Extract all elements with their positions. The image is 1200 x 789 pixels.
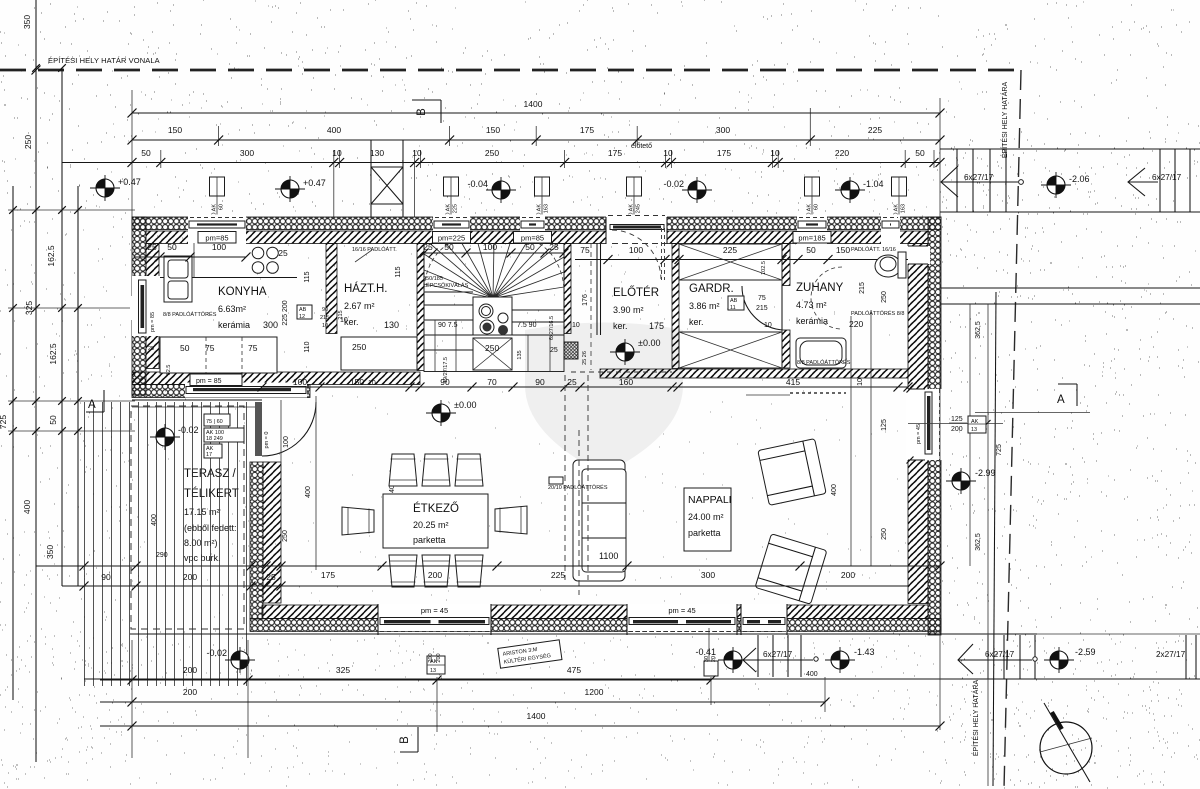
dimension chain kitchen top row xyxy=(134,256,246,258)
svg-text:350: 350 xyxy=(45,545,55,559)
stair direction arrow right band 1 xyxy=(941,166,1018,197)
svg-text:250: 250 xyxy=(485,148,499,158)
callout 125/200 AK13 xyxy=(908,423,1003,425)
svg-text:6x27/17: 6x27/17 xyxy=(985,650,1015,659)
svg-text:ker.: ker. xyxy=(689,317,704,327)
dimension chain 1400 top xyxy=(132,112,940,114)
svg-text:-1.43: -1.43 xyxy=(854,647,875,657)
elevation marker -2.99 xyxy=(946,468,976,494)
svg-text:pm=185: pm=185 xyxy=(798,234,825,243)
svg-text:25: 25 xyxy=(266,572,276,582)
svg-text:ÉPÍTÉSI HELY HATÁRA: ÉPÍTÉSI HELY HATÁRA xyxy=(971,680,980,757)
svg-text:PADLÓÁTTÖRÉS 8/8: PADLÓÁTTÖRÉS 8/8 xyxy=(851,310,904,317)
svg-text:300: 300 xyxy=(240,148,254,158)
left margin dimension lines xyxy=(35,0,37,762)
svg-text:175: 175 xyxy=(649,321,664,331)
svg-text:GARDR.: GARDR. xyxy=(689,283,734,295)
svg-text:20: 20 xyxy=(711,656,717,662)
svg-text:300: 300 xyxy=(263,320,278,330)
svg-text:-0.41: -0.41 xyxy=(695,647,716,657)
svg-text:A: A xyxy=(1057,394,1065,406)
dimension chain bottom row1 xyxy=(100,679,711,681)
svg-text:100: 100 xyxy=(212,242,226,252)
chair left xyxy=(342,507,374,535)
svg-text:90: 90 xyxy=(440,377,450,387)
svg-text:24.00 m²: 24.00 m² xyxy=(688,512,724,522)
svg-text:25: 25 xyxy=(567,377,577,387)
outer wall right insulation xyxy=(928,217,941,635)
svg-text:250: 250 xyxy=(23,135,33,149)
armchair 2 xyxy=(755,534,827,605)
svg-text:-2.06: -2.06 xyxy=(1069,174,1090,184)
section line vertical right xyxy=(987,304,989,786)
svg-text:10: 10 xyxy=(332,148,342,158)
svg-text:25: 25 xyxy=(423,242,433,252)
svg-text:130: 130 xyxy=(370,148,384,158)
toilet xyxy=(875,255,901,277)
room label NAPPALI xyxy=(684,488,731,551)
svg-text:2x27/17: 2x27/17 xyxy=(1156,650,1186,659)
dimension chain upper rooms row xyxy=(575,259,908,261)
svg-text:6.63m²: 6.63m² xyxy=(218,304,246,314)
svg-text:200: 200 xyxy=(428,570,442,580)
svg-text:400: 400 xyxy=(151,514,158,526)
outer wall left brick xyxy=(146,244,159,369)
gardrobe cabinet bottom xyxy=(679,332,782,368)
svg-text:175: 175 xyxy=(717,148,731,158)
dimension chain top row2 xyxy=(132,139,940,141)
eloter dims xyxy=(596,243,598,335)
elevation marker -1.43 xyxy=(825,647,855,673)
svg-text:75: 75 xyxy=(580,245,590,255)
interior wall hazth/stair xyxy=(417,244,424,371)
svg-text:1400: 1400 xyxy=(527,711,546,721)
interior wall gardr/zuhany xyxy=(782,244,790,286)
svg-text:ker.: ker. xyxy=(613,321,628,331)
interior wall konyha/hazth xyxy=(326,244,337,334)
svg-text:B: B xyxy=(416,108,428,116)
svg-text:300: 300 xyxy=(716,125,730,135)
svg-text:200: 200 xyxy=(428,653,434,662)
svg-text:102.5: 102.5 xyxy=(761,261,767,275)
nappali window 2 xyxy=(741,604,787,636)
svg-text:415: 415 xyxy=(786,377,800,387)
svg-text:pm = 45: pm = 45 xyxy=(421,606,448,615)
svg-text:325: 325 xyxy=(336,665,350,675)
svg-text:3.86 m²: 3.86 m² xyxy=(689,301,720,311)
box AB12 xyxy=(297,305,312,319)
dimension chain living row xyxy=(36,565,940,567)
right exterior stair band xyxy=(940,148,1200,150)
svg-text:10: 10 xyxy=(412,148,422,158)
right horizontal lines xyxy=(941,287,1200,289)
svg-text:-0.02: -0.02 xyxy=(178,425,199,435)
elevation marker -1.04 xyxy=(835,177,865,203)
svg-text:70: 70 xyxy=(487,377,497,387)
svg-text:215: 215 xyxy=(859,282,866,294)
svg-text:100: 100 xyxy=(293,377,307,387)
svg-text:-0.02: -0.02 xyxy=(206,648,227,658)
svg-text:pm = 85: pm = 85 xyxy=(196,378,222,385)
svg-text:LÉPCSŐKIVÁLÁS: LÉPCSŐKIVÁLÁS xyxy=(423,282,469,289)
dimension chain bottom row3 xyxy=(100,725,940,727)
svg-text:17: 17 xyxy=(206,452,212,458)
svg-text:50: 50 xyxy=(48,415,58,425)
svg-text:10: 10 xyxy=(572,322,580,329)
svg-text:100: 100 xyxy=(483,242,497,252)
window callout xyxy=(444,177,459,196)
dashed shower door xyxy=(746,394,790,396)
svg-text:162.5: 162.5 xyxy=(48,343,58,365)
right vertical dim xyxy=(969,304,971,566)
svg-text:400: 400 xyxy=(305,486,312,498)
svg-text:pm = 85: pm = 85 xyxy=(150,312,156,332)
section mark A left xyxy=(103,390,105,412)
interior wall eloter/gardr xyxy=(672,244,679,369)
outer wall top insulation xyxy=(132,217,941,230)
section mark A right xyxy=(1076,384,1078,406)
right wall small opening xyxy=(906,246,930,264)
svg-text:25: 25 xyxy=(148,346,154,352)
kitchen sink cabinet xyxy=(164,256,192,302)
svg-text:225 200: 225 200 xyxy=(282,300,289,325)
svg-text:12: 12 xyxy=(299,314,305,320)
svg-text:50: 50 xyxy=(141,148,151,158)
svg-text:PADLÓÁTT. 16/16: PADLÓÁTT. 16/16 xyxy=(851,246,896,253)
zuhany window xyxy=(797,215,827,245)
svg-text:10: 10 xyxy=(663,148,673,158)
stair washer box xyxy=(473,297,512,335)
stair arrow bottom 2 xyxy=(958,644,1032,674)
chair bottom 2 xyxy=(422,555,450,587)
svg-text:B: B xyxy=(399,736,411,744)
outer wall bottom insulation xyxy=(250,619,941,632)
svg-text:10: 10 xyxy=(857,378,864,386)
svg-text:pm = 45: pm = 45 xyxy=(916,424,922,444)
svg-text:163: 163 xyxy=(544,204,550,213)
svg-text:163: 163 xyxy=(901,204,907,213)
svg-text:290: 290 xyxy=(156,552,168,559)
wc window xyxy=(881,215,900,245)
dimension chain hall bottom xyxy=(262,386,908,388)
kitchen counter top xyxy=(159,277,297,279)
svg-text:175: 175 xyxy=(608,148,622,158)
svg-text:-2.59: -2.59 xyxy=(1075,647,1096,657)
kitchen-terrace wall brick xyxy=(132,372,420,385)
svg-text:350: 350 xyxy=(22,15,32,29)
svg-text:362,5: 362,5 xyxy=(975,321,982,339)
svg-text:150: 150 xyxy=(350,377,364,387)
chair bottom 3 xyxy=(455,555,483,587)
svg-text:25: 25 xyxy=(278,248,288,258)
svg-text:AB: AB xyxy=(730,298,738,304)
svg-text:115: 115 xyxy=(304,271,311,282)
entrance door swing xyxy=(661,228,663,280)
svg-text:75 | 60: 75 | 60 xyxy=(206,419,223,425)
parallel boundary line xyxy=(993,292,996,786)
kitchen lower counter xyxy=(160,337,277,373)
box AB11 xyxy=(728,296,744,310)
elevation marker +0.47 xyxy=(275,176,305,202)
ariston unit box xyxy=(498,640,562,668)
eloter dashed edge xyxy=(590,243,592,370)
svg-text:parketta: parketta xyxy=(413,535,446,545)
svg-text:+0.47: +0.47 xyxy=(118,177,141,187)
window callout xyxy=(535,177,550,196)
svg-text:175: 175 xyxy=(321,570,335,580)
elevation marker pm0 eloter xyxy=(610,339,640,365)
site boundary dashed line right xyxy=(1004,70,1021,789)
svg-text:325: 325 xyxy=(24,301,34,315)
dimension chain top row3 xyxy=(62,162,940,164)
elevation marker -0.02 xyxy=(682,177,712,203)
svg-text:75: 75 xyxy=(758,295,766,302)
terrace door xyxy=(255,402,262,456)
svg-text:10: 10 xyxy=(764,322,772,329)
svg-text:176: 176 xyxy=(582,294,589,306)
right wall window pm45 xyxy=(906,389,943,460)
svg-text:8/8 PADLÓÁTTÖRÉS: 8/8 PADLÓÁTTÖRÉS xyxy=(797,359,851,366)
svg-text:225: 225 xyxy=(723,245,737,255)
chair right xyxy=(495,506,527,534)
svg-text:215: 215 xyxy=(756,305,768,312)
svg-text:10: 10 xyxy=(322,323,328,329)
svg-text:400: 400 xyxy=(327,125,341,135)
gardr door swing xyxy=(781,285,783,330)
section mark B bottom xyxy=(417,727,419,752)
hall bottom wall brick xyxy=(600,369,908,378)
svg-text:75: 75 xyxy=(205,343,215,353)
svg-text:pm = 45: pm = 45 xyxy=(668,606,695,615)
svg-text:kerámia: kerámia xyxy=(796,316,828,326)
svg-text:10: 10 xyxy=(770,148,780,158)
svg-text:±0.00: ±0.00 xyxy=(638,338,660,348)
kitchen hob xyxy=(252,247,264,259)
svg-text:200: 200 xyxy=(183,572,197,582)
svg-text:NAPPALI: NAPPALI xyxy=(688,494,732,506)
svg-text:20.25 m²: 20.25 m² xyxy=(413,520,449,530)
chimney flue symbol xyxy=(371,140,403,217)
bathtub xyxy=(796,338,846,368)
svg-text:-0.04: -0.04 xyxy=(467,179,488,189)
svg-text:200: 200 xyxy=(951,426,963,433)
elevation marker -0.41 xyxy=(718,647,748,673)
bottom wall dashed sill xyxy=(250,631,941,633)
svg-text:25: 25 xyxy=(549,242,559,252)
svg-text:+0.47: +0.47 xyxy=(303,178,326,188)
elevation marker pm0 living xyxy=(426,400,456,426)
svg-text:150: 150 xyxy=(168,125,182,135)
elevation marker terrace xyxy=(150,424,180,450)
window callout xyxy=(210,177,225,196)
svg-text:115: 115 xyxy=(395,266,402,277)
svg-text:-2.99: -2.99 xyxy=(975,468,996,478)
svg-text:kerámia: kerámia xyxy=(218,320,250,330)
outer wall bottom brick xyxy=(262,605,928,619)
svg-text:100: 100 xyxy=(283,436,290,448)
left tick rows xyxy=(8,209,135,211)
svg-text:110: 110 xyxy=(304,341,311,352)
svg-text:2.67 m²: 2.67 m² xyxy=(344,301,375,311)
svg-text:250: 250 xyxy=(881,291,888,303)
dining table xyxy=(383,494,488,548)
terrace covered dashed outline xyxy=(131,406,244,629)
svg-text:135: 135 xyxy=(517,350,523,359)
svg-text:13: 13 xyxy=(430,668,436,674)
svg-text:225: 225 xyxy=(868,125,882,135)
kitchen-terrace wall insulation xyxy=(132,385,310,398)
watermark shield logo xyxy=(525,323,683,475)
svg-text:KONYHA: KONYHA xyxy=(218,286,267,298)
window callout xyxy=(627,177,642,196)
chair top 1 xyxy=(389,454,417,486)
svg-text:pm = 0: pm = 0 xyxy=(264,432,270,449)
chair bottom 1 xyxy=(389,555,417,587)
svg-text:150: 150 xyxy=(486,125,500,135)
svg-text:250/185: 250/185 xyxy=(423,276,443,282)
svg-text:130: 130 xyxy=(384,320,399,330)
svg-text:475: 475 xyxy=(567,665,581,675)
callout box 30/20 xyxy=(704,661,718,676)
svg-text:parketta: parketta xyxy=(688,528,721,538)
stair direction arrow right band 2 xyxy=(1128,168,1158,196)
stair lower box xyxy=(473,338,512,370)
elevation marker -2.59 xyxy=(1044,647,1074,673)
svg-text:HÁZT.H.: HÁZT.H. xyxy=(344,282,387,295)
dimension chain stair top row xyxy=(424,252,564,254)
svg-text:A: A xyxy=(88,399,96,411)
window callout xyxy=(892,177,907,196)
svg-text:6x27/17: 6x27/17 xyxy=(763,650,793,659)
bottom exterior stair treads left xyxy=(758,635,801,677)
svg-text:50: 50 xyxy=(444,242,454,252)
svg-text:16/16 PADLÓÁTT.: 16/16 PADLÓÁTT. xyxy=(352,246,397,253)
dining window xyxy=(378,604,491,636)
elevation marker -2.06 xyxy=(1041,172,1071,198)
svg-text:1200: 1200 xyxy=(585,687,604,697)
scan noise speckles xyxy=(0,0,1199,214)
section mark B top xyxy=(440,100,442,123)
svg-text:50: 50 xyxy=(525,242,535,252)
svg-text:-0.02: -0.02 xyxy=(663,179,684,189)
interior wall stair/eloter xyxy=(564,244,571,334)
svg-text:1400: 1400 xyxy=(524,99,543,109)
chair top 3 xyxy=(455,454,483,486)
callout AK20 bottom xyxy=(427,656,445,674)
stair window xyxy=(520,215,545,245)
outer wall right brick xyxy=(908,244,928,604)
armchair 1 xyxy=(758,439,826,506)
svg-text:ÉPÍTÉSI HELY HATÁR VONALA: ÉPÍTÉSI HELY HATÁR VONALA xyxy=(48,56,160,65)
svg-text:50: 50 xyxy=(806,245,816,255)
svg-text:362,5: 362,5 xyxy=(975,533,982,551)
svg-text:ÉPÍTÉSI HELY HATÁRA: ÉPÍTÉSI HELY HATÁRA xyxy=(1000,82,1009,159)
dashed floor edge xyxy=(571,371,672,373)
svg-text:vpc burk.: vpc burk. xyxy=(184,553,221,563)
svg-text:725: 725 xyxy=(0,415,8,429)
svg-text:50: 50 xyxy=(180,343,190,353)
stair rail verticals xyxy=(424,320,550,371)
outer wall top brick xyxy=(146,231,928,244)
elevation marker +0.47 xyxy=(90,175,120,201)
svg-text:125: 125 xyxy=(951,416,963,423)
svg-text:18 249: 18 249 xyxy=(206,436,223,442)
svg-text:225: 225 xyxy=(453,204,459,213)
svg-text:60: 60 xyxy=(814,204,820,210)
svg-text:6x27/17: 6x27/17 xyxy=(1152,173,1182,182)
shower dashed circle xyxy=(811,267,842,329)
extension verticals top xyxy=(131,90,133,217)
site boundary dashed line top xyxy=(0,69,1021,72)
north compass xyxy=(1040,722,1092,774)
svg-text:13: 13 xyxy=(971,427,977,433)
svg-text:175: 175 xyxy=(580,125,594,135)
svg-text:előtető: előtető xyxy=(631,143,652,150)
svg-text:±0.00: ±0.00 xyxy=(454,400,476,410)
dimension chain terrace row xyxy=(62,585,908,587)
svg-text:245: 245 xyxy=(636,204,642,213)
svg-text:25: 25 xyxy=(550,347,558,354)
terrace decking xyxy=(85,402,247,686)
hazth window xyxy=(433,215,470,245)
svg-text:10: 10 xyxy=(368,380,376,387)
building outline bottom lines xyxy=(130,633,1037,635)
svg-text:7.5 90: 7.5 90 xyxy=(517,322,537,329)
svg-text:8.00 m²): 8.00 m²) xyxy=(184,538,218,548)
svg-text:ZUHANY: ZUHANY xyxy=(796,282,844,294)
svg-text:150: 150 xyxy=(836,245,850,255)
kitchen terrace window pm85 xyxy=(185,383,307,398)
svg-text:8/8 PADLÓÁTTÖRÉS: 8/8 PADLÓÁTTÖRÉS xyxy=(163,311,217,318)
hazth cupboard xyxy=(341,337,417,370)
sofa xyxy=(573,460,625,581)
terrace side wall insulation xyxy=(250,462,263,619)
svg-text:200: 200 xyxy=(436,653,442,662)
svg-text:60: 60 xyxy=(219,204,225,210)
svg-text:215: 215 xyxy=(320,315,329,321)
svg-text:160: 160 xyxy=(619,377,633,387)
chair top 2 xyxy=(422,454,450,486)
svg-text:220: 220 xyxy=(835,148,849,158)
svg-text:90 7.5: 90 7.5 xyxy=(438,322,458,329)
svg-text:100: 100 xyxy=(629,245,643,255)
window callout xyxy=(805,177,820,196)
left wall window xyxy=(132,276,160,336)
dimension chain bottom row2 xyxy=(100,701,825,703)
extension verticals bottom xyxy=(131,640,133,758)
svg-text:50: 50 xyxy=(167,242,177,252)
elevation marker -0.02 bottom xyxy=(225,647,255,673)
svg-text:215: 215 xyxy=(338,310,344,319)
svg-text:400: 400 xyxy=(806,671,818,678)
svg-text:3.90 m²: 3.90 m² xyxy=(613,305,644,315)
svg-text:300: 300 xyxy=(701,570,715,580)
svg-text:225: 225 xyxy=(551,570,565,580)
svg-text:200: 200 xyxy=(183,665,197,675)
svg-text:1100: 1100 xyxy=(599,551,618,561)
svg-text:50: 50 xyxy=(915,148,925,158)
svg-text:ELŐTÉR: ELŐTÉR xyxy=(613,285,659,299)
svg-text:25 26: 25 26 xyxy=(582,351,588,365)
nappali window 1 xyxy=(627,604,737,636)
svg-text:250: 250 xyxy=(352,342,366,352)
entrance door opening xyxy=(606,215,667,245)
svg-text:250: 250 xyxy=(282,530,289,542)
chimney crosshatch xyxy=(564,342,578,359)
stair arrow bottom 1 xyxy=(743,648,813,672)
kitchen window xyxy=(188,215,246,245)
staircase winder xyxy=(424,244,564,372)
